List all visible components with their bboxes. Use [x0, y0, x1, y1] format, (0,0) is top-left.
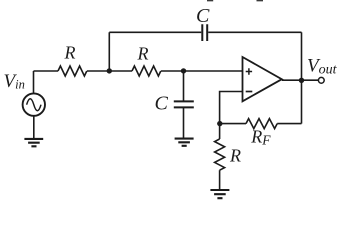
Vout open terminal	[318, 77, 324, 83]
AC source sine wave	[27, 99, 41, 111]
ground for R3	[210, 190, 229, 198]
wire: riser from node A to top feedback rail	[108, 32, 110, 71]
wire: op-amp output to Vout terminal	[282, 79, 319, 81]
svg-text:R: R	[64, 43, 76, 63]
svg-text:C: C	[155, 93, 169, 115]
capacitor C2 (C) plates	[174, 101, 194, 107]
wire: RF right to feedback drop	[277, 123, 301, 125]
wire: stem from node B down to C2	[183, 71, 185, 101]
wire: R1 right to R2 left	[87, 70, 132, 72]
node B junction dot	[181, 68, 186, 73]
AC source VS circle	[23, 93, 45, 115]
capacitor C1 (C) plates	[202, 24, 207, 41]
wire: feedback drop from rail to RF right / output node	[301, 32, 303, 123]
wire: R2 right to op-amp non-inverting input	[161, 70, 243, 72]
wire: C2 bottom plate to ground	[183, 107, 185, 137]
wire: node C down to resistor R3	[219, 124, 221, 139]
svg-text:R: R	[229, 146, 241, 166]
op-amp plus input marker	[246, 68, 252, 74]
cropped text remnant top-right	[257, 0, 264, 2]
op-amp minus input marker	[246, 91, 253, 93]
wire: Vin node to resistor R1 left	[34, 70, 59, 72]
wire: source stem above AC source	[33, 71, 35, 93]
output node junction dot	[299, 78, 304, 83]
svg-text:C: C	[196, 5, 210, 27]
wire: R3 bottom to ground	[219, 170, 221, 189]
ground for C2	[175, 139, 194, 146]
wire: top feedback rail left of C1	[109, 31, 201, 33]
wire: source stem below AC source	[33, 116, 35, 138]
resistor RF	[246, 119, 277, 129]
wire: node C to RF left	[220, 123, 246, 125]
resistor R2 (R)	[132, 66, 161, 76]
svg-text:R: R	[137, 44, 149, 64]
resistor R3 (R) vertical	[215, 139, 225, 170]
node C junction dot	[217, 121, 222, 126]
op-amp U1 triangle	[243, 57, 282, 101]
wire: top feedback rail right of C1	[208, 31, 301, 33]
wire: inverting input to feedback node C	[220, 92, 243, 124]
cropped text remnant top-left	[207, 0, 213, 2]
ground for AC source	[24, 139, 43, 146]
resistor R1 (R)	[58, 66, 87, 76]
node A junction dot	[107, 68, 112, 73]
